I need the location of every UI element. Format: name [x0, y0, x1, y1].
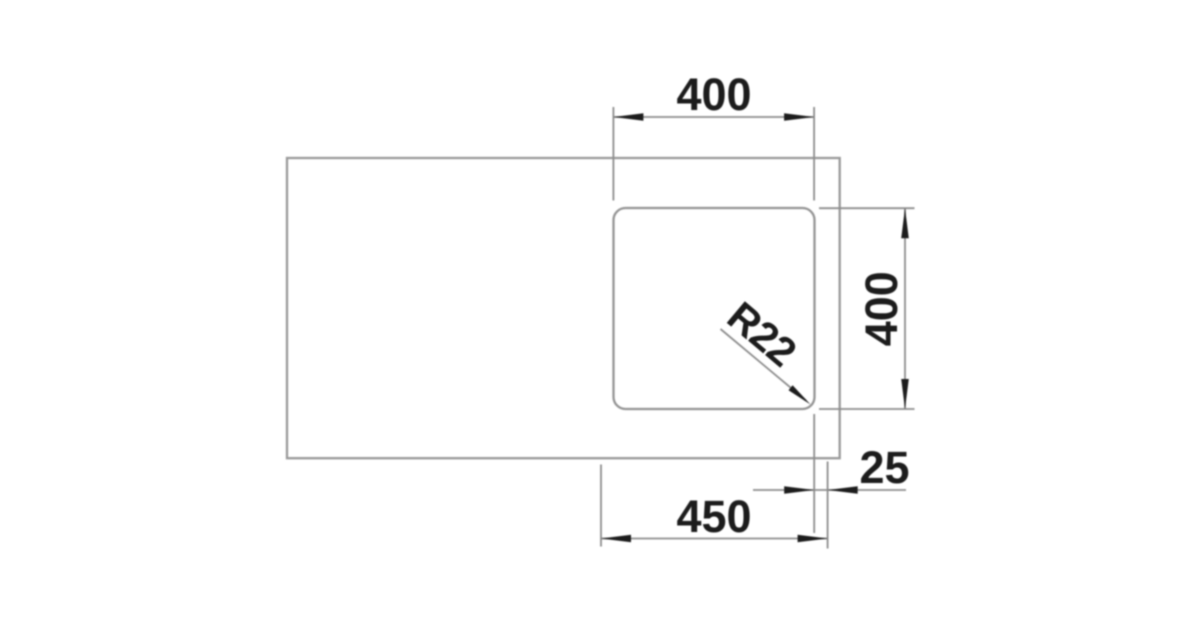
svg-text:400: 400 [676, 69, 751, 120]
svg-text:R22: R22 [719, 293, 805, 376]
svg-text:450: 450 [676, 491, 751, 542]
svg-text:400: 400 [856, 271, 907, 346]
svg-text:25: 25 [859, 442, 909, 493]
